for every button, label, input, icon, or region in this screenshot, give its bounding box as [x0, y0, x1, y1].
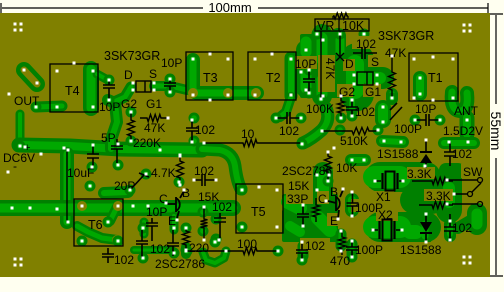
resistor 100 R7 with wire [187, 248, 278, 255]
net pour 47K bottom pad [386, 94, 398, 99]
svg-text:102: 102 [452, 147, 472, 161]
svg-text:10uF: 10uF [67, 166, 94, 180]
wire trace T6 S-curve [77, 226, 117, 240]
trimmer capacitor 20P [131, 173, 149, 189]
net pour T1 hook [452, 92, 468, 111]
wire DC6V supply lead [66, 150, 68, 222]
label 100P C16 [355, 201, 383, 215]
label 20P [114, 179, 135, 193]
label C pin Q4 [318, 192, 327, 206]
svg-text:20P: 20P [114, 179, 135, 193]
diode D2 1S1588 (bottom) [420, 216, 432, 242]
svg-text:D: D [124, 68, 133, 82]
label 102 C18 [114, 253, 134, 267]
svg-text:VR: VR [317, 19, 334, 33]
capacitor 102 C20 [276, 112, 300, 124]
label B pin Q4 [330, 185, 338, 199]
svg-text:2SC2786: 2SC2786 [282, 164, 332, 178]
net pour crystal/switch region (outline) [284, 170, 477, 240]
transistor Q2 3SK73GR footprint [357, 72, 373, 85]
svg-text:5P: 5P [101, 131, 116, 145]
label 10 R4 [241, 127, 255, 141]
resistor 47K R1 [140, 115, 168, 122]
svg-text:E: E [168, 214, 176, 228]
wire trace bottom U trace [203, 251, 226, 263]
svg-text:T5: T5 [251, 205, 266, 219]
capacitor 10P C21 [416, 114, 439, 126]
svg-text:47K: 47K [323, 58, 337, 79]
label 220K R2 [133, 136, 161, 150]
net pour VR/Q2 region (outline) [302, 34, 383, 120]
svg-text:B: B [182, 186, 190, 200]
svg-text:100P: 100P [355, 243, 383, 257]
label 102 C13 [355, 105, 375, 119]
label B pin Q3 [182, 186, 190, 200]
capacitor 102 C13 [346, 100, 358, 115]
wire trace T2 inner right column [285, 58, 298, 96]
pads: via pad rings [15, 29, 446, 266]
resistor 220K R2 [128, 113, 135, 141]
net pour 100P3 pads blob [347, 244, 358, 254]
label 4.7K R3 [151, 166, 176, 180]
label 100 R7 [237, 237, 257, 251]
label 102 C20 [279, 124, 299, 138]
crystal X2 [371, 220, 403, 241]
wire trace T4 column to 10P cap [97, 74, 106, 79]
svg-text:T3: T3 [203, 71, 218, 85]
transformer T6 [74, 199, 123, 246]
wire trace 20P blob [104, 192, 128, 193]
svg-text:102: 102 [356, 37, 376, 51]
label G1 pin [146, 97, 162, 111]
wire trace Q1 right pad to T3 [154, 86, 187, 90]
net pour 102-8 pads blob [298, 246, 309, 256]
label 47K R11 [385, 46, 406, 60]
capacitor 102 C18 [102, 248, 114, 263]
svg-text:33P: 33P [287, 192, 308, 206]
capacitor 102 C3b [194, 174, 216, 186]
svg-text:10K: 10K [336, 161, 357, 175]
label D pin Q2 [345, 57, 354, 71]
resistor 4.7K R3 [177, 155, 184, 184]
wire trace OUT bottom to T4 pad [36, 106, 62, 107]
svg-text:G1: G1 [146, 97, 162, 111]
svg-text:3SK73GR: 3SK73GR [378, 29, 434, 43]
pads: clearance rings on copper [77, 88, 283, 245]
resistor 15K R8 [313, 198, 320, 222]
label 10P C10 [146, 205, 167, 219]
net pour VR/Q2 region (fill) [306, 38, 383, 120]
label 10uF C6 [67, 166, 94, 180]
label 3.3K R15 [426, 189, 451, 203]
label E pin Q3 [168, 214, 176, 228]
net pour ANT pad [460, 118, 475, 134]
label 10K VR [342, 19, 365, 33]
label 10P C21 [415, 102, 436, 116]
label 47K R1 [144, 121, 165, 135]
net pour 470 pads blob [336, 234, 347, 246]
svg-text:T2: T2 [266, 71, 281, 85]
resistor 470 R10 [339, 231, 346, 255]
svg-text:102: 102 [212, 200, 232, 214]
transistor Q1 3SK73GR footprint [136, 81, 151, 92]
svg-text:3.3K: 3.3K [426, 189, 451, 203]
svg-text:3SK73GR: 3SK73GR [104, 49, 160, 63]
svg-text:G1: G1 [365, 85, 381, 99]
svg-text:55mm: 55mm [488, 112, 504, 151]
svg-text:2SC2786: 2SC2786 [155, 257, 205, 271]
label T2 [266, 71, 281, 85]
label E pin Q4 [330, 214, 338, 228]
wire VR wiper lead A [320, 31, 322, 98]
capacitor 102 C8 [167, 230, 179, 256]
svg-text:4.7K: 4.7K [151, 166, 176, 180]
svg-text:47K: 47K [144, 121, 165, 135]
label 102 C3 [195, 123, 215, 137]
svg-text:D: D [345, 57, 354, 71]
label 102 C14 [452, 147, 472, 161]
resistor 10K R9 [325, 152, 332, 181]
label T4 [65, 84, 80, 98]
transformer T4 [50, 64, 98, 112]
resistor 15K R5 [201, 208, 208, 239]
label X1 [376, 190, 391, 204]
label X2 [378, 208, 393, 222]
label T1 [428, 71, 443, 85]
svg-text:10P: 10P [415, 102, 436, 116]
switch SW [447, 178, 483, 207]
wire trace T6 inner right link [110, 207, 117, 221]
svg-text:1S1588: 1S1588 [400, 243, 442, 257]
wire VR wiper lead B with trim mark [336, 31, 344, 61]
svg-text:102: 102 [194, 164, 214, 178]
label 102 C9 [212, 200, 232, 214]
svg-text:-: - [13, 159, 17, 173]
resistor 47K R11 [389, 57, 396, 97]
svg-text:3.3K: 3.3K [407, 167, 432, 181]
svg-text:G2: G2 [121, 97, 137, 111]
capacitor 102 C19 [353, 47, 377, 59]
label 10P C4 [295, 57, 316, 71]
capacitor 100P C16 [347, 193, 359, 215]
wire trace T3 inner left column and bottom band [193, 60, 257, 93]
resistor 100K R12 [338, 96, 345, 119]
capacitor 102 C15 [444, 214, 456, 242]
resistor 10 R4 with wire [205, 140, 301, 147]
label 3SK73GR right [378, 29, 434, 43]
label 220 R6 [189, 241, 209, 255]
svg-text:15K: 15K [288, 179, 309, 193]
svg-text:220: 220 [189, 241, 209, 255]
wire trace 10P cap to 5P column [108, 100, 117, 149]
svg-text:1S1588: 1S1588 [377, 147, 419, 161]
svg-text:102: 102 [355, 105, 375, 119]
label 47K vertical [323, 58, 337, 79]
dimension line 55mm [488, 14, 504, 276]
svg-text:T1: T1 [428, 71, 443, 85]
crystal X1 [374, 172, 404, 191]
label 10P C2 [161, 56, 182, 70]
svg-text:B: B [330, 185, 338, 199]
svg-text:102: 102 [452, 221, 472, 235]
svg-text:SW: SW [463, 165, 483, 179]
svg-text:100K: 100K [306, 102, 334, 116]
capacitor 102 C14 [444, 142, 456, 166]
wire trace from OUT pad down [16, 114, 25, 141]
label 102 C12 [305, 239, 325, 253]
svg-text:102: 102 [150, 242, 170, 256]
svg-text:220K: 220K [133, 136, 161, 150]
label 3.3K R14 [407, 167, 432, 181]
wire trace under 102 label [134, 246, 172, 254]
label T3 [203, 71, 218, 85]
svg-text:100P: 100P [355, 201, 383, 215]
svg-text:100: 100 [237, 237, 257, 251]
transformer T2 [248, 52, 296, 100]
svg-text:C: C [318, 192, 327, 206]
capacitor 5P C5 [111, 139, 123, 163]
resistor 3.3K R15 [419, 202, 453, 209]
label 100K R12 [306, 102, 334, 116]
capacitor 10P C1 [103, 80, 115, 100]
label VR [317, 19, 334, 33]
label 2SC2786 right [282, 164, 332, 178]
capacitor 102 C9 [214, 213, 226, 238]
wire trace T2 down to 102 cap [280, 97, 291, 117]
svg-text:102: 102 [195, 123, 215, 137]
text islands on copper pour [286, 36, 487, 255]
label 102 C3b [194, 164, 214, 178]
label 1S1588 D1 [377, 147, 419, 161]
capacitor 33P C11 [297, 206, 309, 225]
net pour 10K bottom blob [351, 154, 365, 166]
wire trace band tail to T5 [202, 149, 241, 189]
label 5P C5 [101, 131, 116, 145]
svg-text:47K: 47K [385, 46, 406, 60]
label SW [463, 165, 483, 179]
resistor 220 R6 [183, 228, 190, 250]
label 102 C19 [356, 37, 376, 51]
svg-text:1.5D2V: 1.5D2V [443, 124, 483, 138]
svg-text:E: E [330, 214, 338, 228]
label T5 [251, 205, 266, 219]
svg-text:10P: 10P [161, 56, 182, 70]
svg-text:102: 102 [114, 253, 134, 267]
wire trace 100 wire left pad blob [181, 247, 191, 254]
wire trace ground bus bottom [0, 200, 233, 216]
wire trace power band [19, 145, 202, 150]
capacitor 102 C12 [296, 244, 308, 259]
svg-text:S: S [371, 55, 379, 69]
transformer T5 [236, 184, 283, 233]
dimension line 100mm [1, 0, 488, 15]
label 33P C11 [287, 192, 308, 206]
label G2 pin Q2 [339, 85, 355, 99]
label 1.5D2V [443, 124, 483, 138]
capacitor 102 C7 [136, 230, 148, 258]
label 15K R5 [198, 190, 219, 204]
svg-text:S: S [149, 67, 157, 81]
label plus [24, 142, 30, 154]
net pour crystal/switch region (fill) [288, 176, 477, 236]
label 3SK73GR left [104, 49, 160, 63]
svg-text:100mm: 100mm [208, 0, 251, 15]
net pour top right band [444, 137, 474, 149]
label 10P C1 [99, 100, 120, 114]
svg-text:ANT: ANT [454, 104, 479, 118]
net pour 510K right blob [382, 141, 403, 142]
svg-text:510K: 510K [340, 134, 368, 148]
capacitor 10P C4 [303, 70, 315, 92]
capacitor 10uF C6 [87, 145, 99, 166]
svg-text:102: 102 [305, 239, 325, 253]
label DC6V [3, 151, 35, 165]
svg-text:T4: T4 [65, 84, 80, 98]
wire trace Q1 left pad link [114, 87, 131, 102]
net pour T1 inner pads [413, 78, 427, 94]
label 470 R10 [330, 254, 350, 268]
resistor 3.3K R14 [412, 178, 453, 185]
label 100P trimmer [394, 122, 422, 136]
label S pin [149, 67, 157, 81]
resistor 510K R13 [323, 128, 378, 135]
label 100P C17 [355, 243, 383, 257]
label 510K R13 [340, 134, 368, 148]
potentiometer VR 10K [315, 13, 369, 31]
label 1S1588 D2 [400, 243, 442, 257]
label 102 C8 [150, 242, 170, 256]
svg-text:102: 102 [279, 124, 299, 138]
wire trace cap C8 link [170, 216, 179, 230]
trimmer capacitor 100P (top) [390, 103, 402, 120]
label ANT [454, 104, 479, 118]
svg-text:470: 470 [330, 254, 350, 268]
transistor Q3 2SC2786 (left) [167, 191, 184, 218]
label 2SC2786 left [155, 257, 205, 271]
transformer T1 [409, 53, 458, 101]
label T6 [88, 218, 103, 232]
diode D1 1S1588 (top) [420, 141, 432, 168]
label C pin Q3 [159, 192, 168, 206]
transistor Q4 2SC2786 (right) [328, 190, 343, 218]
capacitor 102 C3 [186, 120, 198, 141]
label 102 C15 [452, 221, 472, 235]
capacitor 10P C2 [164, 78, 176, 93]
svg-text:100P: 100P [394, 122, 422, 136]
svg-text:T6: T6 [88, 218, 103, 232]
svg-text:10P: 10P [295, 57, 316, 71]
fiducial marks [14, 23, 472, 267]
transformer T3 [186, 52, 233, 100]
wire trace OUT connector oval [24, 70, 37, 84]
label OUT [14, 94, 40, 108]
label G1 pin Q2 [365, 85, 381, 99]
svg-text:10K: 10K [342, 19, 365, 33]
wire trace cap C7 link [140, 222, 149, 234]
svg-text:10P: 10P [99, 100, 120, 114]
label 15K R8 [288, 179, 309, 193]
wire trace band-to-bus left column [60, 154, 74, 222]
label D pin [124, 68, 133, 82]
label G2 pin [121, 97, 137, 111]
wire trace T4 inner column [83, 69, 99, 108]
label S pin Q2 [371, 55, 379, 69]
label 10K R9 [336, 161, 357, 175]
wire trace pour to 10-wire pad [303, 108, 328, 143]
capacitor 10P C10 [146, 218, 158, 241]
capacitor 100P C17 [346, 241, 358, 256]
svg-text:10: 10 [241, 127, 255, 141]
label minus [13, 159, 17, 173]
pads: component holes [7, 33, 470, 262]
